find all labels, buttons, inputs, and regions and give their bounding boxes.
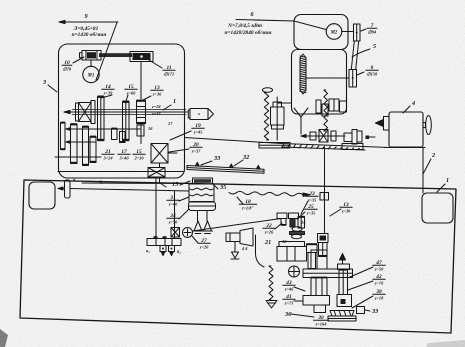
svg-text:z=40: z=40 [168, 201, 178, 206]
legs [197, 211, 199, 222]
reverse shaft cylinder [65, 180, 71, 198]
tumbler gears [281, 219, 286, 226]
svg-text:z=35: z=35 [306, 210, 316, 215]
small clutch square [171, 228, 180, 238]
arrow a [66, 128, 72, 130]
pulley 11 [130, 52, 153, 62]
left pedestal [29, 182, 55, 209]
link line left of housing [278, 102, 292, 104]
scan smudge bottom-left corner [0, 329, 8, 347]
tailstock body 4 [389, 112, 423, 147]
svg-text:z=24: z=24 [151, 104, 161, 109]
arrow into cylinder [58, 188, 65, 190]
shaft IV [58, 171, 183, 173]
shaft II line [66, 128, 140, 130]
follower rest [344, 133, 352, 142]
base plate [259, 143, 290, 149]
pulley 8 [349, 70, 357, 88]
stud on bar [230, 164, 234, 168]
gear cluster bottom of housing [316, 100, 321, 113]
workpiece with center [190, 109, 208, 120]
shaft III line [66, 141, 96, 143]
norton gearbox body [189, 184, 214, 202]
svg-text:z=44: z=44 [151, 111, 161, 116]
apron accents [281, 216, 348, 279]
svg-text:z=73: z=73 [284, 300, 294, 305]
feed rod line [70, 189, 189, 192]
svg-text:z=45: z=45 [193, 129, 203, 134]
shaft M2 to pulley 7 [342, 31, 354, 33]
tailstock handwheel [423, 123, 426, 128]
pulley 10 [82, 51, 101, 61]
svg-text:21: 21 [264, 239, 271, 246]
follower cylinder [273, 102, 282, 107]
link clutch to feed shaft [159, 177, 161, 183]
svg-text:33: 33 [213, 155, 220, 162]
norton bracket [189, 202, 216, 211]
svg-text:z=46: z=46 [284, 286, 294, 291]
cross feed assembly [301, 135, 345, 137]
svg-text:9: 9 [84, 13, 87, 20]
svg-text:3=24: 3=24 [102, 155, 113, 160]
scan smudge bottom-right [426, 340, 465, 347]
gear on shaft II tall [98, 97, 105, 141]
svg-text:1: 1 [173, 98, 176, 105]
motor M1 [83, 66, 99, 82]
apron top columns [311, 250, 327, 269]
leadscrew wave 18 [229, 191, 303, 196]
svg-text:2: 2 [431, 152, 435, 159]
apron lower column [314, 305, 326, 313]
svg-text:z=37: z=37 [191, 148, 201, 153]
svg-text:t=1/8″: t=1/8″ [242, 205, 254, 210]
bed way line [185, 138, 390, 148]
svg-text:z=18: z=18 [374, 295, 384, 300]
tailstock base line [385, 147, 425, 149]
svg-text:N=7,8/4,5 кВт: N=7,8/4,5 кВт [227, 23, 262, 29]
weight [266, 301, 277, 309]
tool holder [226, 233, 240, 242]
vertical feed line into apron [324, 148, 326, 234]
motor housing upper [294, 15, 348, 50]
gear column A [307, 244, 318, 253]
svg-text:24: 24 [300, 220, 306, 225]
svg-text:36: 36 [284, 311, 292, 318]
svg-text:2=30: 2=30 [133, 155, 144, 160]
apron column mid [311, 278, 327, 296]
clutch block dark [318, 234, 329, 243]
norton gearbox top bar [193, 178, 213, 184]
spring on vertical rod [324, 90, 328, 131]
tailstock support to bed [422, 148, 424, 194]
arrow b [66, 141, 72, 143]
svg-text:35: 35 [219, 184, 226, 191]
svg-text:z=20: z=20 [199, 244, 209, 249]
cross slide discs [292, 227, 302, 231]
gear mid tall [123, 102, 130, 141]
svg-text:z=30: z=30 [341, 208, 351, 213]
gear hub accents [61, 96, 146, 167]
svg-text:z=60: z=60 [126, 90, 136, 95]
pulley 7 [354, 24, 361, 41]
halfnut pad [330, 311, 354, 317]
svg-text:z=164: z=164 [315, 321, 328, 326]
handwheel circle [289, 266, 300, 277]
splined shaft in lower housing [300, 54, 306, 94]
motor housing lower 5 [292, 50, 347, 115]
line idler to apron [193, 219, 282, 232]
upper feed line [82, 182, 195, 185]
svg-text:Л=0,45×81: Л=0,45×81 [73, 26, 99, 32]
svg-text:5: 5 [373, 43, 376, 50]
apron mid bar [303, 296, 330, 306]
svg-text:4 4: 4 4 [241, 246, 248, 251]
clutch on spindle [76, 103, 79, 121]
gear under 13 [137, 125, 144, 136]
base plate [328, 316, 356, 321]
clutch block below [148, 168, 165, 178]
small gear right of line [320, 193, 329, 201]
template bar 33 [187, 166, 264, 174]
change gear b [169, 246, 175, 252]
svg-text:б₂: б₂ [177, 249, 181, 254]
small gears center [112, 129, 118, 140]
foot left [194, 221, 202, 231]
svg-text:n=1420/2840 об/мин: n=1420/2840 об/мин [224, 29, 271, 36]
spindle shaft I [66, 111, 188, 113]
change gear bracket [147, 239, 181, 246]
motor M2 [326, 24, 342, 40]
shaft pulley10 to M1 [90, 60, 92, 67]
idler circle [183, 228, 193, 238]
shaft III [55, 156, 101, 158]
tumbler gear plates [277, 213, 287, 219]
svg-text:z=26: z=26 [264, 229, 274, 234]
up arrow [342, 258, 344, 264]
vertical change-gear shaft [155, 178, 157, 239]
clutch square 20 [151, 144, 168, 164]
svg-text:M2: M2 [330, 31, 338, 36]
svg-text:z=50: z=50 [168, 219, 178, 224]
svg-text:z=39: z=39 [103, 90, 113, 95]
right column body [339, 270, 348, 295]
svg-text:∅78: ∅78 [63, 66, 72, 71]
right pedestal [422, 193, 453, 223]
svg-text:33: 33 [371, 308, 378, 315]
belt 7 to 8 [351, 41, 354, 70]
gear column B [319, 243, 328, 257]
svg-text:z=50: z=50 [374, 266, 384, 271]
left gear cluster [61, 123, 66, 150]
apron main bar [303, 269, 353, 278]
svg-text:a₂: a₂ [146, 248, 150, 253]
svg-text:M1: M1 [87, 74, 95, 79]
svg-text:15: 15 [172, 181, 178, 188]
foot right [204, 221, 212, 231]
right column cap [338, 264, 350, 270]
gear block 13 on spindle [137, 101, 146, 124]
tailstock quill [384, 117, 390, 131]
svg-text:3=40: 3=40 [118, 155, 129, 160]
spring hanger ellipse [263, 88, 273, 92]
belt bar (flat belt) [99, 53, 132, 57]
svg-text:z=76: z=76 [374, 280, 384, 285]
weight chain [256, 235, 265, 267]
tool post stem [234, 242, 236, 253]
shaft pulley11 down [140, 62, 142, 100]
headstock housing 3 [59, 44, 185, 178]
side latch [357, 307, 365, 314]
bed outline [20, 180, 456, 333]
carriage body [277, 247, 307, 262]
svg-text:1: 1 [446, 177, 449, 184]
carriage top bar [279, 242, 305, 247]
second change-gear shaft [174, 191, 176, 239]
svg-text:∅172: ∅172 [164, 71, 175, 76]
svg-text:n=1430 об/мин: n=1430 об/мин [72, 31, 107, 38]
svg-text:∅94: ∅94 [368, 29, 377, 34]
svg-text:z=36: z=36 [152, 91, 162, 96]
spring [264, 93, 268, 141]
svg-text:4: 4 [411, 100, 415, 107]
stud on bar [257, 165, 261, 169]
right column block [337, 295, 352, 307]
change gear a [160, 246, 166, 252]
svg-text:∅158: ∅158 [367, 71, 378, 76]
stud on bar [196, 162, 200, 166]
way band lower line with hatching [282, 147, 365, 150]
belt fork V [294, 108, 308, 117]
svg-text:3: 3 [42, 79, 46, 86]
shaft to pulley 8 [306, 77, 349, 79]
